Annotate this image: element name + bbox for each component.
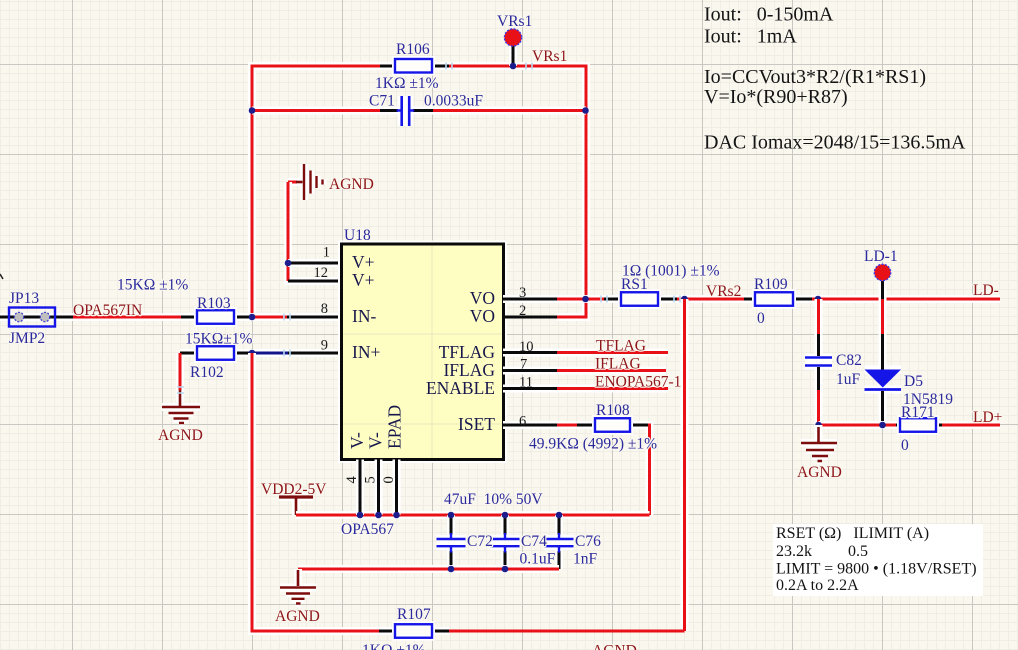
svg-text:12: 12: [314, 265, 329, 281]
svg-text:TFLAG: TFLAG: [439, 342, 496, 362]
svg-text:10: 10: [519, 339, 534, 355]
svg-text:OPA567IN: OPA567IN: [73, 302, 142, 319]
svg-text:LD-: LD-: [973, 282, 999, 299]
note box bottom-right: [773, 524, 983, 596]
svg-text:V-: V-: [366, 432, 386, 449]
wire TFLAG: [503, 349, 668, 357]
svg-text:IN+: IN+: [352, 342, 380, 362]
capacitor C71: [380, 96, 433, 126]
resistor R171: [900, 418, 942, 432]
capacitor C82: [805, 299, 832, 425]
svg-text:R106: R106: [396, 41, 430, 58]
svg-text:0: 0: [901, 437, 909, 454]
svg-text:0.2A to 2.2A: 0.2A to 2.2A: [776, 577, 859, 594]
junction IN+: [249, 350, 256, 357]
svg-text:1: 1: [323, 245, 330, 261]
wire VDD rail: [296, 511, 650, 519]
ground AGND bottom-left: [280, 569, 316, 604]
svg-text:C82: C82: [836, 352, 862, 369]
resistor R106: [380, 59, 449, 73]
svg-text:C74: C74: [521, 533, 547, 550]
svg-text:AGND: AGND: [329, 176, 374, 193]
capacitor C72: [437, 515, 466, 569]
junction VO: [582, 296, 589, 303]
svg-text:Iout: 0-150mA: Iout: 0-150mA: [704, 4, 834, 26]
svg-text:Iout: 1mA: Iout: 1mA: [704, 26, 797, 48]
svg-text:47uF 10% 50V: 47uF 10% 50V: [444, 491, 543, 508]
svg-text:C76: C76: [575, 533, 601, 550]
wire pin4 stub: [356, 460, 364, 516]
wire feedback top loop: [252, 66, 586, 317]
svg-text:VRs1: VRs1: [497, 13, 532, 30]
test point VRs1: [504, 29, 521, 66]
svg-text:VO: VO: [470, 306, 495, 326]
svg-text:1nF: 1nF: [573, 551, 598, 568]
svg-text:R102: R102: [190, 364, 224, 381]
wire ENABLE: [503, 385, 668, 393]
svg-text:15KΩ ±1%: 15KΩ ±1%: [117, 277, 188, 294]
svg-text:ENOPA567-1: ENOPA567-1: [595, 374, 681, 391]
junction pin0: [393, 512, 400, 519]
junction C74 bottom: [502, 566, 509, 573]
svg-text:23.2k 0.5: 23.2k 0.5: [776, 543, 868, 560]
svg-text:R103: R103: [197, 295, 231, 312]
svg-text:TFLAG: TFLAG: [596, 338, 646, 355]
wire end markers: [177, 63, 680, 394]
junction VRs1: [510, 63, 517, 70]
ground AGND right: [801, 425, 837, 461]
wire pin12 stub: [288, 280, 341, 283]
junction C72 bottom: [448, 566, 455, 573]
wire C71 row: [252, 107, 586, 115]
svg-text:DAC Iomax=2048/15=136.5mA: DAC Iomax=2048/15=136.5mA: [704, 132, 966, 154]
svg-text:LIMIT = 9800 • (1.18V/RSET): LIMIT = 9800 • (1.18V/RSET): [776, 561, 977, 578]
svg-text:D5: D5: [904, 373, 923, 390]
svg-text:R171: R171: [901, 404, 935, 421]
svg-text:ISET: ISET: [458, 414, 495, 434]
resistor R103: [197, 310, 341, 324]
wire VO pin2: [503, 316, 557, 319]
junction C71 left: [249, 107, 256, 114]
svg-text:1KΩ ±1%: 1KΩ ±1%: [362, 642, 426, 650]
svg-text:U18: U18: [344, 227, 371, 244]
svg-text:1uF: 1uF: [836, 371, 861, 388]
power VDD2-5V: [279, 497, 313, 515]
svg-text:R109: R109: [754, 276, 788, 293]
svg-text:4: 4: [344, 476, 360, 484]
wire pin5 stub: [375, 460, 383, 516]
junction IN-: [249, 314, 256, 321]
junction VRs2: [681, 296, 688, 303]
svg-text:0.0033uF: 0.0033uF: [424, 93, 483, 110]
svg-text:8: 8: [321, 301, 328, 317]
test point LD-1: [874, 264, 890, 299]
wire R107 loop: [252, 353, 380, 631]
junction C72 top: [448, 512, 455, 519]
junction R109 out: [815, 296, 822, 303]
ground AGND left: [162, 390, 200, 423]
wire LD-: [812, 295, 1000, 303]
svg-text:3: 3: [519, 285, 526, 301]
svg-text:V+: V+: [352, 252, 375, 272]
junction C74 top: [502, 512, 509, 519]
svg-text:AGND: AGND: [797, 464, 842, 481]
svg-text:0.1uF: 0.1uF: [520, 551, 556, 568]
wire VO pin3: [503, 295, 621, 303]
svg-text:V=Io*(R90+R87): V=Io*(R90+R87): [704, 86, 848, 108]
svg-text:EPAD: EPAD: [385, 405, 405, 449]
svg-text:ENABLE: ENABLE: [426, 378, 495, 398]
svg-text:VRs2: VRs2: [706, 283, 741, 300]
svg-text:Io=CCVout3*R2/(R1*RS1): Io=CCVout3*R2/(R1*RS1): [704, 66, 926, 88]
svg-text:0: 0: [381, 476, 397, 483]
wire OPA567IN: [73, 313, 197, 321]
capacitor C76: [545, 515, 574, 569]
wire VRs2 vertical: [681, 299, 689, 631]
svg-text:IFLAG: IFLAG: [443, 360, 495, 380]
svg-text:RSET (Ω) ILIMIT (A): RSET (Ω) ILIMIT (A): [776, 525, 929, 542]
wire IFLAG: [503, 367, 666, 375]
svg-text:IFLAG: IFLAG: [595, 356, 641, 373]
svg-text:R108: R108: [596, 402, 630, 419]
junction LD-1: [879, 296, 886, 303]
connector JP13: [0, 308, 73, 327]
junction C71 right: [582, 107, 589, 114]
power AGND top: [288, 164, 323, 200]
svg-text:JMP2: JMP2: [9, 330, 45, 347]
svg-text:LD-1: LD-1: [864, 248, 898, 265]
wire pin1 stub: [288, 259, 341, 267]
svg-text:AGND: AGND: [275, 608, 320, 625]
junction C82 bottom: [815, 422, 822, 429]
junction pin5: [375, 512, 382, 519]
svg-text:9: 9: [321, 338, 328, 354]
svg-text:V+: V+: [352, 270, 375, 290]
svg-text:1Ω (1001) ±1%: 1Ω (1001) ±1%: [622, 263, 720, 280]
svg-text:VDD2-5V: VDD2-5V: [261, 481, 327, 498]
svg-text:C72: C72: [467, 533, 493, 550]
junction C76 top: [556, 512, 563, 519]
wire V+ vertical: [288, 182, 341, 281]
junction D5 bottom: [879, 422, 886, 429]
junction pin4: [357, 512, 364, 519]
svg-text:IN-: IN-: [352, 306, 376, 326]
junction pin1: [285, 260, 292, 267]
resistor R108: [503, 418, 650, 515]
svg-text:JP13: JP13: [9, 290, 39, 307]
svg-text:VO: VO: [470, 288, 495, 308]
resistor RS1: [621, 292, 744, 306]
svg-text:VRs1: VRs1: [532, 48, 567, 65]
svg-text:2: 2: [519, 303, 526, 319]
diode D5: [865, 299, 902, 425]
clipped glyph at left edge: [0, 274, 3, 279]
svg-text:V-: V-: [347, 432, 367, 449]
IC U18: [342, 244, 504, 460]
wire pin0 stub: [393, 460, 401, 516]
svg-text:OPA567: OPA567: [341, 521, 394, 538]
svg-text:LD+: LD+: [973, 409, 1002, 426]
svg-text:6: 6: [519, 414, 526, 430]
svg-text:C71: C71: [369, 93, 395, 110]
svg-text:R107: R107: [397, 606, 431, 623]
svg-text:49.9KΩ (4992) ±1%: 49.9KΩ (4992) ±1%: [529, 436, 657, 453]
svg-text:15KΩ±1%: 15KΩ±1%: [185, 331, 252, 348]
resistor R107: [379, 624, 685, 638]
wire cap bottom rail: [298, 565, 559, 573]
svg-text:1KΩ ±1%: 1KΩ ±1%: [375, 75, 439, 92]
svg-text:5: 5: [362, 476, 378, 483]
svg-text:AGND: AGND: [158, 427, 203, 444]
wire LD+ rail: [819, 421, 1001, 429]
svg-text:AGND: AGND: [592, 643, 637, 650]
svg-text:7: 7: [520, 357, 527, 373]
svg-text:0: 0: [757, 310, 765, 327]
resistor R109: [744, 292, 812, 306]
svg-text:11: 11: [519, 375, 533, 391]
capacitor C74: [491, 515, 520, 569]
resistor R102: [180, 346, 341, 390]
